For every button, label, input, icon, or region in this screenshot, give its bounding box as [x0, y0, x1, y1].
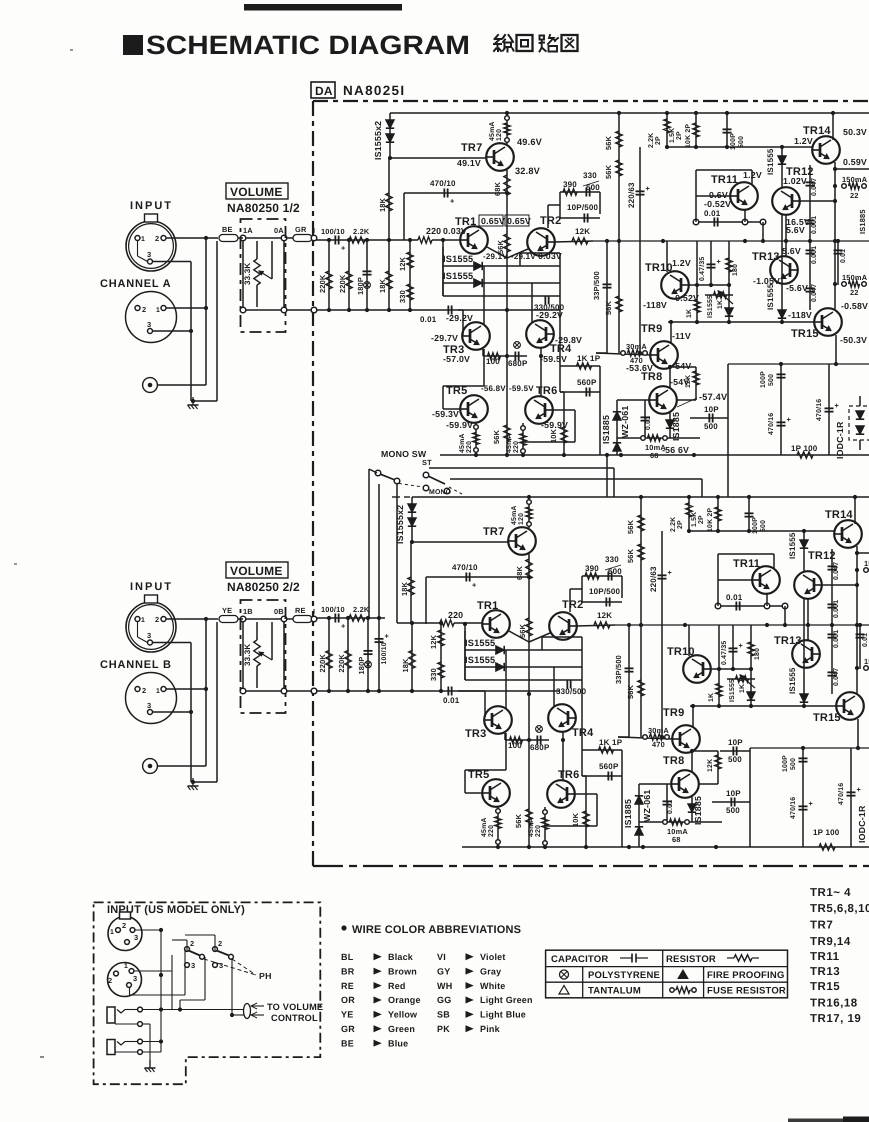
label VOLUME (channel B)	[226, 562, 288, 578]
svg-text:Light Green: Light Green	[480, 995, 533, 1005]
svg-text:1.2V: 1.2V	[794, 136, 813, 146]
svg-text:TR11: TR11	[733, 558, 760, 570]
US switch right	[213, 947, 218, 952]
svg-text:-56 6V: -56 6V	[662, 445, 689, 455]
svg-text:+: +	[787, 415, 792, 424]
svg-text:220/63: 220/63	[649, 566, 658, 592]
legend polystyrene symbol	[560, 970, 569, 979]
wire input line (channel A)	[238, 237, 243, 239]
svg-text:1A: 1A	[243, 226, 253, 235]
svg-text:10K 2P: 10K 2P	[707, 508, 714, 532]
svg-text:0.01: 0.01	[726, 593, 743, 602]
svg-text:1.5K: 1.5K	[669, 128, 676, 143]
legend WIRE COLOR ABBREVIATIONS	[341, 925, 346, 930]
svg-text:RE: RE	[341, 981, 354, 991]
wire TR9 collector (channel B)	[692, 706, 694, 727]
resistor 180 (channel A)	[728, 241, 730, 285]
svg-text:CAPACITOR: CAPACITOR	[551, 954, 608, 965]
svg-text:TR15: TR15	[813, 712, 841, 724]
svg-text:100: 100	[486, 357, 500, 366]
svg-text:BE: BE	[341, 1038, 354, 1048]
svg-text:390: 390	[563, 180, 577, 189]
svg-text:+: +	[739, 641, 744, 650]
transistor TR14 (channel B)	[834, 520, 862, 548]
svg-text:56K: 56K	[514, 813, 523, 828]
svg-text:12K: 12K	[429, 634, 438, 649]
svg-text:TR15: TR15	[810, 981, 840, 993]
svg-text:45mA: 45mA	[489, 121, 496, 141]
svg-text:220: 220	[466, 441, 473, 453]
switch mono contacts	[375, 470, 381, 476]
svg-text:45mA: 45mA	[511, 505, 518, 525]
svg-text:56K: 56K	[518, 623, 527, 638]
svg-text:2P: 2P	[655, 136, 662, 145]
capacitor 470/16 (2) (channel A)	[828, 364, 830, 455]
zener diode WZ-061 (channel A)	[616, 400, 618, 455]
XLR connector input (channel A)	[126, 221, 176, 271]
resistor 18K (channel A)	[388, 240, 390, 310]
svg-text:+: +	[385, 632, 390, 641]
transistor TR9 (channel B)	[672, 725, 700, 753]
svg-text:TR9,14: TR9,14	[810, 936, 851, 948]
svg-text:+: +	[809, 799, 814, 808]
svg-text:NA80250 2/2: NA80250 2/2	[227, 580, 300, 594]
svg-text:10P: 10P	[704, 405, 719, 414]
svg-text:1.5K: 1.5K	[691, 512, 698, 527]
svg-text:INPUT: INPUT	[130, 200, 173, 212]
resistors 56K 56K (input column) (channel A)	[618, 113, 620, 241]
svg-text:470/16: 470/16	[790, 797, 797, 819]
resistor 390 capacitor 330/500 row (channel A)	[560, 191, 600, 193]
transistor TR10 (channel B)	[683, 655, 711, 683]
transistor TR8 (channel B)	[671, 770, 699, 798]
svg-text:IODC-1R: IODC-1R	[857, 805, 867, 843]
svg-text:49.6V: 49.6V	[517, 137, 543, 147]
svg-text:FUSE RESISTOR: FUSE RESISTOR	[707, 986, 786, 997]
transistor TR7 (channel B)	[508, 527, 536, 555]
svg-text:IS1555x2: IS1555x2	[373, 121, 383, 160]
svg-text:120: 120	[496, 129, 503, 141]
wire TR15 emitter (channel B)	[857, 719, 859, 748]
svg-text:33P/500: 33P/500	[592, 271, 601, 300]
svg-text:3: 3	[133, 974, 137, 983]
svg-text:TR10: TR10	[667, 646, 695, 658]
svg-text:470: 470	[652, 740, 665, 749]
svg-text:500: 500	[790, 758, 797, 770]
svg-text:Yellow: Yellow	[388, 1010, 418, 1020]
svg-text:TR1: TR1	[477, 600, 498, 612]
svg-text:TR5,6,8,10: TR5,6,8,10	[810, 903, 869, 915]
svg-text:0.47/35: 0.47/35	[699, 257, 706, 281]
capacitor 33P/500 (channel B)	[628, 625, 630, 737]
svg-text:470/16: 470/16	[816, 399, 823, 421]
capacitor 100P 500 (lower) (channel A)	[780, 364, 782, 438]
wire to TR7 base (channel A)	[390, 157, 487, 159]
capacitor 100/10 (channel B)	[334, 614, 336, 623]
svg-text:I: I	[313, 226, 315, 235]
capacitor 100/10 (channel A)	[334, 236, 336, 245]
resistor 56K (third) (channel B)	[640, 625, 642, 737]
terminal 0B (channel B)	[281, 616, 287, 622]
svg-text:-59.5V: -59.5V	[540, 354, 567, 364]
svg-text:56K: 56K	[626, 684, 635, 699]
resistor 12K (TR9 emitter) (channel A)	[672, 366, 696, 368]
svg-text:FIRE PROOFING: FIRE PROOFING	[707, 970, 785, 981]
transistor TR1 (channel B)	[482, 610, 510, 638]
svg-text:10P/500: 10P/500	[567, 203, 599, 212]
fuse resistor 30mA 470 (channel B)	[618, 737, 673, 739]
svg-text:220K: 220K	[338, 274, 347, 293]
svg-text:0.047: 0.047	[811, 178, 818, 196]
capacitor 220/63 (channel B)	[661, 531, 663, 737]
svg-text:2.2K: 2.2K	[648, 133, 655, 148]
svg-text:TR2: TR2	[540, 215, 561, 227]
transistor TR2 (channel A)	[527, 228, 555, 256]
svg-text:IS1555: IS1555	[443, 254, 473, 264]
terminal GR (channel A)	[293, 235, 312, 242]
wire diff stage box (channel B)	[464, 631, 466, 680]
resistors 2.2K 1.5K 2P 2P (channel A)	[666, 113, 668, 147]
svg-text:TR13: TR13	[752, 251, 780, 263]
svg-text:1P 100: 1P 100	[813, 828, 840, 837]
capacitor 680P polystyrene (channel A)	[514, 352, 516, 361]
svg-text:68K: 68K	[515, 565, 524, 580]
svg-text:3: 3	[147, 250, 151, 259]
svg-text:5.6V: 5.6V	[786, 225, 805, 235]
wire TR3/TR4 collectors (channel A)	[483, 266, 485, 324]
svg-text:0.01: 0.01	[645, 416, 652, 430]
svg-text:12K: 12K	[398, 256, 407, 271]
switch levers	[380, 474, 395, 480]
resistor 56K (center) (channel B)	[526, 809, 532, 825]
svg-text:470/16: 470/16	[838, 783, 845, 805]
capacitor 0.01 (TR8) (channel B)	[666, 784, 668, 822]
svg-text:TO VOLUME: TO VOLUME	[267, 1002, 323, 1012]
svg-text:TR16,18: TR16,18	[810, 998, 858, 1010]
terminal 1B (channel B)	[240, 616, 246, 622]
svg-text:WZ-061: WZ-061	[620, 406, 630, 438]
resistor 12K/330 (channel B)	[440, 623, 442, 691]
svg-text:CHANNEL A: CHANNEL A	[100, 278, 171, 290]
wire TR6 base stub (channel B)	[574, 793, 597, 795]
svg-text:0.001: 0.001	[833, 630, 840, 648]
svg-text:470/16: 470/16	[768, 413, 775, 435]
wire channel A rail to channel B rail	[606, 455, 608, 498]
svg-text:-50.3V: -50.3V	[840, 335, 867, 345]
svg-text:56K: 56K	[604, 135, 613, 150]
svg-text:IS1885: IS1885	[623, 799, 633, 828]
svg-text:GG: GG	[437, 995, 451, 1005]
svg-text:0.65V: 0.65V	[481, 216, 505, 226]
svg-text:PK: PK	[437, 1024, 450, 1034]
svg-text:1: 1	[156, 688, 160, 695]
wire input line (channel B)	[314, 617, 385, 619]
svg-text:+: +	[646, 184, 651, 193]
capacitor 10P 500 (channel A)	[690, 417, 728, 419]
svg-text:68: 68	[650, 451, 659, 460]
svg-text:2: 2	[122, 921, 126, 930]
legend table frame	[546, 950, 788, 998]
svg-text:3: 3	[134, 933, 138, 942]
svg-text:+: +	[668, 568, 673, 577]
volume bottom terminals (channel A)	[240, 307, 246, 313]
diodes IS1555x2 (channel A)	[389, 113, 391, 158]
capacitor 680P polystyrene (channel B)	[536, 736, 538, 745]
resistor 18K (channel B)	[411, 623, 413, 691]
diode IS1885 (TR8 emitter) (channel A)	[669, 413, 671, 438]
svg-text:Pink: Pink	[480, 1024, 501, 1034]
diode IS1885 (zener column) (channel B)	[635, 827, 643, 835]
transistor TR12 (channel A)	[772, 187, 800, 215]
svg-text:Red: Red	[388, 981, 406, 991]
svg-text:+: +	[450, 197, 455, 206]
svg-text:2: 2	[142, 305, 146, 314]
wire 33P column to TR9 (channel A)	[596, 352, 607, 354]
svg-text:56K: 56K	[492, 429, 501, 444]
resistor 10K 2P (channel B)	[717, 497, 719, 531]
svg-text:POLYSTYRENE: POLYSTYRENE	[588, 970, 660, 981]
svg-text:IS1555: IS1555	[465, 655, 495, 665]
wire lower bias rail (channel B)	[314, 690, 560, 692]
terminal BE (channel A)	[219, 235, 238, 242]
svg-text:GR: GR	[295, 225, 307, 234]
capacitor 100P 500 (lower) (channel B)	[802, 748, 804, 822]
wire switch to right (ST)	[429, 467, 614, 469]
svg-text:0.65V: 0.65V	[507, 216, 531, 226]
wire TR9 collector (channel A)	[670, 322, 672, 343]
svg-text:White: White	[480, 981, 506, 991]
svg-text:TR6: TR6	[558, 769, 579, 781]
svg-text:Green: Green	[388, 1024, 415, 1034]
wire switch down-left verticals	[368, 469, 370, 618]
capacitor 180P (channel A)	[366, 240, 368, 310]
svg-text:560P: 560P	[599, 762, 619, 771]
svg-text:150mA: 150mA	[842, 273, 868, 282]
capacitor 0.01 (output) (channel B)	[859, 625, 861, 669]
diode IS1555 (TR12 base) (channel A)	[781, 147, 783, 188]
svg-text:2: 2	[108, 976, 112, 985]
svg-text:VOLUME: VOLUME	[230, 564, 283, 578]
svg-text:+: +	[341, 622, 346, 631]
svg-text:IS1885: IS1885	[858, 209, 867, 234]
wire TR14 collector to rail (channel B)	[854, 497, 856, 524]
svg-text:50.3V: 50.3V	[843, 127, 867, 137]
transistor TR7 (channel A)	[486, 143, 514, 171]
svg-text:45mA: 45mA	[481, 817, 488, 837]
terminal 0A (channel A)	[281, 235, 287, 241]
svg-text:-29.8V: -29.8V	[555, 335, 582, 345]
diode IS1555 (TR15 base) (channel B)	[803, 598, 805, 706]
svg-text:IS1555: IS1555	[729, 679, 736, 702]
svg-text:1K 1P: 1K 1P	[599, 738, 623, 747]
svg-text:0.01: 0.01	[420, 315, 437, 324]
svg-text:100/10: 100/10	[321, 605, 345, 614]
resistor 100 (between TR3 TR4) (channel A)	[482, 349, 484, 356]
svg-text:2: 2	[142, 686, 146, 695]
svg-text:2P: 2P	[698, 515, 705, 524]
wire main mid rail right (channel B)	[615, 624, 869, 626]
resistor 18K (upper) (channel A)	[388, 158, 390, 240]
svg-text:10P: 10P	[726, 789, 741, 798]
input wires (channel B)	[166, 618, 218, 620]
resistor 220K (channel A)	[328, 240, 330, 310]
svg-text:500: 500	[586, 183, 600, 192]
svg-text:100P: 100P	[760, 371, 767, 388]
capacitor 470/16 (channel A)	[777, 421, 786, 423]
svg-text:120: 120	[518, 513, 525, 525]
svg-text:VOLUME: VOLUME	[230, 185, 283, 199]
wire TR4-TR6 vertical (channel B)	[562, 732, 564, 780]
terminal I (channel B)	[311, 616, 317, 622]
svg-text:1.2V: 1.2V	[672, 258, 691, 268]
svg-text:220K: 220K	[318, 274, 327, 293]
wire TR15 base row (channel B)	[690, 705, 837, 707]
svg-text:TR5: TR5	[468, 769, 489, 781]
resistor 10K (TR6) (channel A)	[563, 392, 565, 455]
capacitor column 0.047 0.001 (channel B)	[831, 549, 833, 694]
capacitor 470/16 (2) (channel B)	[850, 748, 852, 847]
svg-text:500: 500	[608, 567, 622, 576]
svg-text:+: +	[857, 785, 862, 794]
capacitor 220/63 (channel A)	[639, 147, 641, 353]
svg-text:680P: 680P	[530, 743, 550, 752]
feedback wire with capacitor 470/10 (channel A)	[404, 192, 507, 194]
svg-text:12K: 12K	[707, 759, 714, 772]
resistor 45mA 120 (TR7 collector) (channel B)	[528, 497, 530, 528]
XLR connector input (channel B)	[126, 602, 176, 652]
svg-text:1.02V: 1.02V	[783, 176, 807, 186]
phone jack 1	[107, 1007, 115, 1023]
potentiometer 33.3K (channel A)	[242, 241, 244, 307]
svg-text:1K 1P: 1K 1P	[577, 354, 601, 363]
svg-text:2P: 2P	[676, 131, 683, 140]
svg-text:10K: 10K	[549, 428, 558, 443]
capacitor 0.01 (TR3 base) (channel A)	[447, 306, 449, 315]
svg-text:RE: RE	[295, 606, 306, 615]
svg-text:0.47/35: 0.47/35	[721, 641, 728, 665]
svg-text:500: 500	[768, 374, 775, 386]
svg-text:+: +	[472, 581, 477, 590]
legend fuse resistor symbol	[670, 988, 674, 992]
diode row IS1555 (2) (channel A)	[443, 282, 560, 284]
svg-text:ST: ST	[422, 458, 432, 467]
svg-text:-5.6V: -5.6V	[786, 283, 808, 293]
svg-text:2.2K: 2.2K	[670, 517, 677, 532]
transistor TR2 (channel B)	[549, 612, 577, 640]
svg-text:NA8025I: NA8025I	[343, 83, 405, 98]
capacitor 180P (channel B)	[367, 618, 369, 691]
capacitor 560P (channel A)	[560, 391, 600, 393]
wire center column (channel B)	[528, 642, 530, 847]
fuse resistor 30mA 470 (channel A)	[596, 353, 651, 355]
svg-text:SB: SB	[437, 1010, 450, 1020]
transistor TR10 (channel A)	[661, 271, 689, 299]
svg-text:0.03V: 0.03V	[443, 226, 467, 236]
resistor 1K1P (channel B)	[582, 749, 622, 751]
resistor 68K (TR7 emitter) (channel B)	[528, 554, 530, 616]
svg-text:-59.9V: -59.9V	[446, 420, 473, 430]
svg-text:1: 1	[141, 236, 145, 243]
diode IS1555 (TR12 base) (channel B)	[803, 531, 805, 572]
svg-text:100: 100	[508, 741, 522, 750]
svg-text:5.6V: 5.6V	[782, 246, 801, 256]
capacitor 100/10 (channel B)	[378, 618, 380, 691]
svg-text:TR4: TR4	[572, 727, 594, 739]
main dashed border left	[312, 101, 314, 866]
main dashed border bottom	[313, 865, 869, 867]
capacitor 100P/500 (channel A)	[726, 113, 728, 147]
wire TR3-TR5 loop (channel B)	[505, 733, 507, 770]
wire TR10 base/collector (channel B)	[710, 668, 751, 670]
resistor 180 (channel B)	[750, 625, 752, 669]
transistor TR6 (channel B)	[547, 780, 575, 808]
svg-text:18K: 18K	[401, 658, 410, 673]
zener diode WZ-061 (channel B)	[638, 784, 640, 847]
svg-text:0.01: 0.01	[862, 633, 869, 647]
wire input line (channel A)	[314, 239, 418, 241]
transistor TR13 (channel B)	[792, 640, 820, 668]
XLR connector 2 (channel B)	[126, 673, 177, 724]
svg-text:220: 220	[488, 825, 495, 837]
svg-text:IS1555: IS1555	[766, 283, 775, 310]
transistor TR3 (channel A)	[462, 322, 490, 350]
svg-text:68: 68	[672, 835, 681, 844]
svg-text:+: +	[835, 401, 840, 410]
svg-text:220: 220	[535, 825, 542, 837]
title block square	[123, 35, 143, 55]
resistor 12K/330 (channel A)	[409, 240, 411, 310]
svg-text:TR11: TR11	[711, 174, 738, 186]
US model dashed box	[94, 902, 321, 1084]
svg-text:470/10: 470/10	[452, 563, 478, 572]
dash fragments left of channel B rail	[392, 496, 400, 498]
volume bottom terminals (channel B)	[240, 688, 246, 694]
svg-text:TR3: TR3	[465, 728, 486, 740]
svg-text:TR9: TR9	[641, 323, 662, 335]
svg-text:1K: 1K	[708, 693, 715, 702]
svg-text:+: +	[341, 244, 346, 253]
svg-text:TR1~ 4: TR1~ 4	[810, 887, 851, 899]
svg-text:330: 330	[398, 290, 407, 303]
svg-text:49.1V: 49.1V	[457, 158, 481, 168]
svg-text:1: 1	[156, 307, 160, 314]
svg-text:TR8: TR8	[641, 371, 662, 383]
diode pack IODC-1R (channel A)	[849, 406, 869, 440]
svg-text:TR15: TR15	[791, 328, 819, 340]
svg-text:VI: VI	[437, 952, 446, 962]
capacitor 10P 500 (second) (channel B)	[720, 750, 750, 752]
svg-text:TR9: TR9	[663, 707, 684, 719]
capacitor 0.47/35 (channel A)	[710, 241, 712, 285]
svg-text:-0.58V: -0.58V	[841, 301, 868, 311]
svg-text:33.3K: 33.3K	[243, 644, 252, 666]
svg-text:DA: DA	[315, 84, 333, 98]
RCA jack (channel A)	[143, 378, 158, 393]
capacitor 33P/500 (channel A)	[606, 241, 608, 353]
resistors 56K 56K (input column) (channel B)	[640, 497, 642, 625]
capacitor 10P 500 (channel B)	[712, 801, 750, 803]
svg-text:330: 330	[605, 555, 619, 564]
svg-text:3: 3	[191, 961, 195, 970]
wire top supply rail (channel B)	[412, 496, 869, 498]
svg-text:3: 3	[147, 631, 151, 640]
capacitor 0.01 (output) (channel A)	[837, 241, 839, 285]
resistor 45mA 220 (TR6 emitter) (channel A)	[522, 423, 524, 455]
svg-text:0.047: 0.047	[833, 562, 840, 580]
svg-text:Black: Black	[388, 952, 414, 962]
resistor 45mA 220 (TR5 emitter) (channel A)	[475, 422, 477, 455]
svg-text:IS1555: IS1555	[766, 148, 775, 175]
